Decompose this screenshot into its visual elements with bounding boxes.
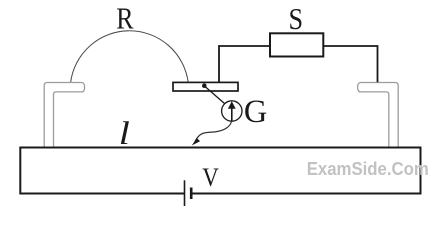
galvanometer G <box>222 101 242 121</box>
svg-text:ExamSide.Com: ExamSide.Com <box>307 159 429 180</box>
battery V: long plate <box>184 180 186 206</box>
arrowhead on bridge wire <box>192 138 200 146</box>
copper strip left (L-bracket) <box>44 83 84 148</box>
wire: wavy lead from G to bridge wire with arrow <box>195 122 232 142</box>
wire: dot to galvanometer <box>205 87 225 104</box>
jockey contact dot <box>202 83 207 88</box>
copper strip right (mirrored L-bracket) <box>358 83 399 148</box>
jockey bar <box>173 82 238 91</box>
bridge block (rectangle with battery gap in bottom edge) <box>20 148 420 194</box>
svg-text:V: V <box>202 164 219 193</box>
svg-text:R: R <box>116 3 133 37</box>
svg-text:l: l <box>119 114 130 151</box>
battery V: short plate <box>190 188 193 200</box>
wire: S to right strip <box>323 46 377 82</box>
wire: arc through resistance R <box>71 31 189 83</box>
svg-text:G: G <box>244 94 267 130</box>
svg-text:S: S <box>289 4 304 37</box>
wire: jockey bar up to S (left lead) <box>219 46 270 82</box>
resistor S (box) <box>270 33 323 56</box>
